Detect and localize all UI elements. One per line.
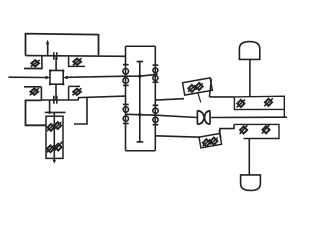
bearing B2 upper-right [73, 59, 81, 65]
coupling left cone [197, 111, 204, 125]
housing inner wall lower-right [69, 86, 80, 100]
shaft upper clutch line [26, 55, 126, 58]
housing top [26, 34, 99, 56]
gearbox shaft right [154, 46, 156, 151]
gearbox center shaft [139, 62, 141, 142]
shelf lower-left [24, 86, 41, 88]
joint J8 hatch [262, 124, 270, 134]
bearing B8 [55, 144, 62, 151]
housing wall lower [40, 87, 42, 100]
bearing B5 hatch [47, 124, 55, 131]
gearbox shaft left [125, 46, 127, 151]
shaft axis square to gearbox [67, 76, 125, 77]
housing bottom-left [26, 100, 47, 125]
left shaft mid bar [123, 84, 129, 86]
shaft vertical upper bevel [55, 56, 57, 71]
lower drive line [155, 136, 200, 137]
center shaft bottom bar [137, 141, 144, 143]
link vertical to pto [49, 100, 51, 112]
shaft input axis left [9, 76, 47, 78]
cardan B end bar [219, 130, 221, 138]
shaft vertical pto [53, 112, 55, 160]
wheel top [239, 42, 259, 60]
gear G7 [153, 108, 158, 113]
upper cardan shaft A [183, 78, 213, 95]
front axle box upper [234, 96, 284, 117]
right shaft lower bars [153, 105, 159, 124]
joint J4 [265, 99, 272, 106]
joint J1 hatch [188, 85, 195, 91]
gearbox bottom [126, 150, 156, 152]
staircase housing [220, 124, 234, 133]
gear G1 [123, 69, 129, 75]
corner dot BL [49, 83, 51, 85]
wheel bottom [241, 175, 261, 191]
housing inner wall upper-right [69, 56, 85, 67]
corner dot BR [62, 83, 64, 85]
lower cardan shaft B [199, 133, 222, 147]
joint J5 [203, 139, 210, 146]
junction dot pto [48, 111, 51, 114]
bearing B2 hatch [73, 58, 82, 65]
bearing B5 [48, 124, 55, 131]
differential housing square [50, 71, 63, 85]
joint J6 hatch [210, 138, 218, 145]
bearing B1 upper-left [31, 60, 39, 66]
right shaft upper bar [153, 64, 159, 66]
clutch C2 bar left [53, 96, 55, 104]
output axis to coupling [126, 114, 197, 117]
shelf upper-left [24, 68, 43, 70]
rear axle line [211, 116, 287, 118]
clutch C1 bar right [56, 52, 58, 60]
bearing B8 hatch [54, 142, 62, 151]
joint J8 [262, 126, 269, 133]
gearbox housing top [126, 45, 156, 47]
joint J1 [188, 85, 195, 92]
wheel stem top [249, 59, 251, 96]
joint J2 [196, 83, 203, 90]
gear G4 [153, 76, 158, 81]
cardan A end bar [209, 79, 211, 97]
shaft lower clutch line [41, 96, 125, 100]
input arrowhead [46, 40, 50, 45]
gear G5 [123, 107, 128, 112]
joint J3 hatch [237, 100, 245, 108]
bearing B7 hatch [47, 146, 55, 153]
bearing B6 hatch [54, 122, 61, 129]
bearing B1 hatch [31, 60, 40, 67]
joint J6 [210, 138, 217, 145]
gear G2 [123, 78, 129, 84]
bearing B6 [54, 122, 61, 129]
joint J4 hatch [264, 98, 273, 106]
junction dot lower [138, 113, 141, 116]
upper drive line [155, 99, 184, 100]
bearing B4 lower-right [73, 89, 81, 95]
axis inside gearbox [126, 74, 158, 76]
joint J5 hatch [203, 139, 211, 146]
junction dot upper [138, 75, 141, 78]
bearing B3 lower-left [31, 89, 39, 95]
joint J7 [240, 126, 247, 133]
housing wall upper [41, 55, 43, 68]
clutch C1 bar left [53, 52, 55, 60]
pto box [46, 116, 63, 158]
arrowhead into differential right [63, 76, 68, 80]
joint J2 hatch [195, 83, 202, 89]
corner dot TL [49, 70, 51, 72]
front axle box lower [234, 124, 279, 138]
shaft vertical lower bevel [55, 84, 57, 100]
joint J7 hatch [240, 125, 248, 134]
center shaft top bar [137, 61, 143, 63]
housing bottom-right [74, 98, 87, 124]
joint J3 [237, 100, 244, 107]
coupling right cone [205, 111, 210, 125]
cardan A tail [198, 92, 201, 103]
bearing shelf bar [45, 111, 66, 113]
pto output arrowhead [53, 160, 56, 164]
bearing B4 hatch [73, 88, 82, 95]
bearing B3 hatch [30, 88, 39, 95]
input arrow up [47, 44, 49, 56]
upper drive line right [209, 96, 234, 98]
wheel stem bottom [248, 139, 250, 175]
left shaft lower bars [123, 104, 129, 123]
gear G3 [153, 68, 158, 73]
corner dot TR [62, 70, 64, 72]
gear G6 [123, 116, 128, 121]
arrowhead into differential left [46, 76, 51, 80]
gear G8 [153, 117, 158, 122]
clutch C2 bar right [56, 96, 58, 104]
bearing B7 [47, 145, 54, 152]
left shaft upper bar [123, 64, 129, 66]
right shaft mid bar [153, 81, 159, 83]
